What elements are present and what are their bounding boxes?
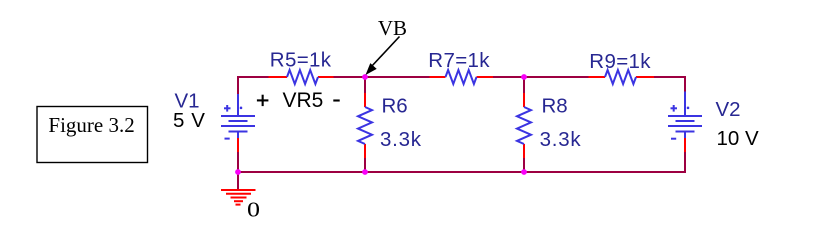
svg-text:10 V: 10 V bbox=[717, 127, 759, 150]
svg-text:R9=1k: R9=1k bbox=[589, 50, 651, 73]
svg-text:3.3k: 3.3k bbox=[380, 128, 422, 151]
svg-text:VR5: VR5 bbox=[283, 89, 324, 112]
svg-text:5 V: 5 V bbox=[173, 109, 206, 132]
svg-text:R6: R6 bbox=[382, 95, 408, 118]
svg-text:R8: R8 bbox=[542, 95, 568, 118]
svg-text:Figure 3.2: Figure 3.2 bbox=[48, 113, 134, 137]
svg-text:0: 0 bbox=[247, 198, 260, 222]
svg-text:R5=1k: R5=1k bbox=[270, 49, 332, 72]
svg-text:R7=1k: R7=1k bbox=[428, 49, 490, 72]
svg-text:VB: VB bbox=[378, 16, 407, 40]
svg-text:V2: V2 bbox=[716, 98, 741, 121]
svg-text:3.3k: 3.3k bbox=[540, 128, 582, 151]
